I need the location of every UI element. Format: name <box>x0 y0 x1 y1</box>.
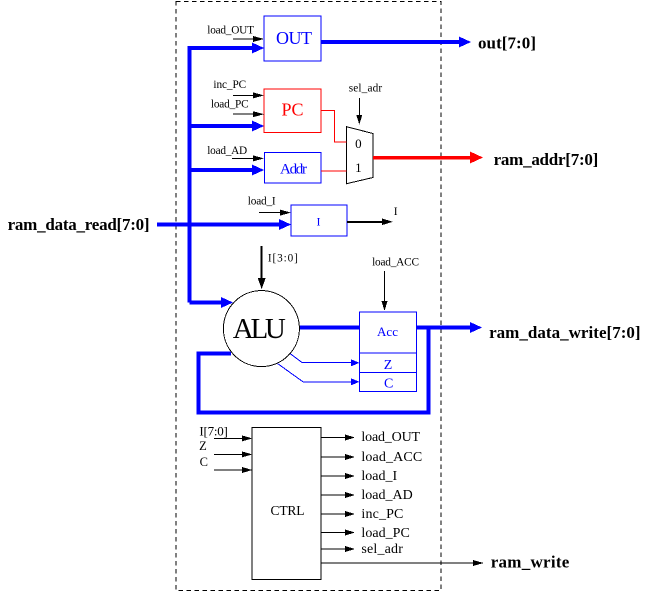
svg-text:load_AD: load_AD <box>361 488 412 503</box>
wire: bus branch into PC <box>190 124 254 128</box>
CTRL output load_I <box>321 475 346 477</box>
ALU circle <box>223 291 299 367</box>
svg-text:CTRL: CTRL <box>271 503 305 518</box>
svg-text:Addr: Addr <box>280 162 307 178</box>
wire: ram_data_read bus into I <box>157 223 280 227</box>
CTRL output inc_PC <box>321 513 346 515</box>
wire: bus branch into Addr <box>190 168 254 172</box>
wire: Addr output to mux input 1 (red) <box>321 170 347 172</box>
wire: mux output ram_addr (thick red) <box>373 156 471 160</box>
svg-text:I[7:0]: I[7:0] <box>199 424 228 439</box>
wire: accumulator feedback loop to ALU <box>199 328 429 413</box>
wire: ALU output into Acc <box>298 326 360 330</box>
wire: blue data bus trunk (vertical with top corner to OUT) <box>190 48 255 303</box>
svg-text:ALU: ALU <box>233 313 286 345</box>
svg-text:load_ACC: load_ACC <box>361 450 422 465</box>
register OUT <box>264 16 321 61</box>
wire: ALU C flag (thin blue) <box>278 364 353 382</box>
svg-text:inc_PC: inc_PC <box>213 79 246 91</box>
svg-text:load_OUT: load_OUT <box>207 24 254 36</box>
svg-text:Acc: Acc <box>377 324 398 339</box>
wire: OUT output to out[7:0] <box>321 40 460 44</box>
svg-text:I[3:0]: I[3:0] <box>268 253 298 265</box>
svg-text:load_AD: load_AD <box>207 145 247 157</box>
svg-text:out[7:0]: out[7:0] <box>478 34 536 53</box>
CPU boundary dashed box <box>176 2 441 591</box>
svg-text:load_PC: load_PC <box>361 526 409 541</box>
wire: I output with label I <box>347 221 383 223</box>
controller CTRL <box>252 428 321 580</box>
svg-text:load_I: load_I <box>361 469 397 484</box>
CTRL output load_ACC <box>321 456 346 458</box>
svg-text:ram_data_write[7:0]: ram_data_write[7:0] <box>489 323 640 342</box>
svg-text:sel_adr: sel_adr <box>349 83 383 95</box>
wire: I[3:0] into ALU with label <box>261 246 263 280</box>
register Addr <box>265 153 322 184</box>
svg-text:load_ACC: load_ACC <box>372 256 419 268</box>
register I <box>291 205 347 236</box>
svg-text:load_OUT: load_OUT <box>361 430 420 445</box>
register Acc with Z and C flags <box>360 312 417 392</box>
svg-text:inc_PC: inc_PC <box>361 507 403 522</box>
svg-text:ram_addr[7:0]: ram_addr[7:0] <box>494 150 599 169</box>
svg-text:load_I: load_I <box>248 196 276 208</box>
wire: PC output to mux input 0 (red) <box>321 111 347 142</box>
svg-text:Z: Z <box>199 439 207 453</box>
svg-text:ram_write: ram_write <box>491 553 570 572</box>
CTRL output load_AD <box>321 494 346 496</box>
svg-text:I: I <box>317 215 321 229</box>
svg-text:load_PC: load_PC <box>211 98 249 110</box>
svg-text:PC: PC <box>282 100 304 120</box>
svg-text:Z: Z <box>384 358 393 373</box>
svg-text:ram_data_read[7:0]: ram_data_read[7:0] <box>8 215 150 234</box>
svg-text:C: C <box>200 455 208 469</box>
multiplexer mux <box>347 127 374 184</box>
register PC <box>264 89 321 133</box>
svg-text:OUT: OUT <box>276 28 312 48</box>
wire: bus arrow into OUT <box>252 43 264 54</box>
wire: ALU Z flag (thin blue) <box>290 354 352 363</box>
CTRL output load_PC <box>321 532 346 534</box>
wire: ram_write output <box>321 562 475 564</box>
CTRL output load_OUT <box>321 437 346 439</box>
wire: bus branch into ALU <box>190 301 223 305</box>
svg-text:I: I <box>394 206 398 218</box>
svg-text:sel_adr: sel_adr <box>361 542 403 557</box>
CTRL output sel_adr <box>321 548 346 550</box>
svg-text:C: C <box>384 377 393 392</box>
wire: Acc output to ram_data_write <box>417 326 472 330</box>
svg-text:1: 1 <box>355 160 362 175</box>
svg-text:0: 0 <box>355 136 362 151</box>
